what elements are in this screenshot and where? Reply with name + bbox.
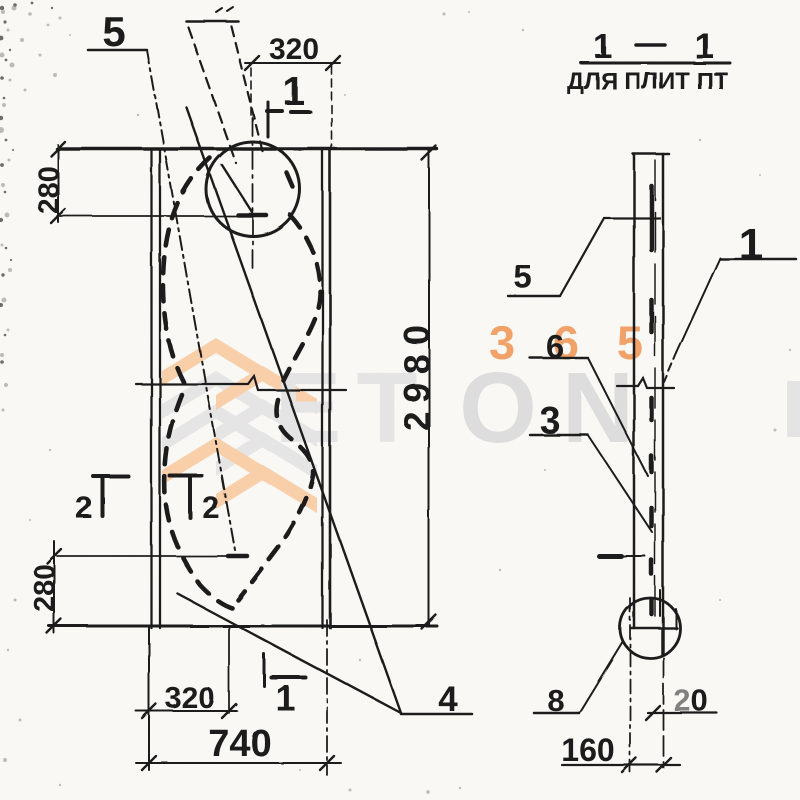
svg-text:1: 1 bbox=[594, 28, 613, 66]
svg-text:6: 6 bbox=[546, 328, 564, 365]
leader inside circle bbox=[222, 165, 252, 212]
top partial label line bbox=[186, 7, 238, 21]
front view left edge inner bbox=[159, 150, 161, 628]
svg-text:365: 365 bbox=[489, 316, 643, 369]
side top edge bbox=[633, 153, 669, 156]
side left edge bbox=[633, 154, 636, 628]
dimension 280 top bbox=[33, 142, 250, 223]
logo gray chevron row2 small bbox=[216, 399, 317, 447]
dimension 320 top bbox=[245, 33, 340, 149]
svg-text:1: 1 bbox=[739, 220, 763, 269]
svg-text:160: 160 bbox=[561, 732, 614, 768]
leader dashed short bbox=[231, 26, 263, 153]
label 4 bbox=[401, 680, 472, 719]
svg-text:1: 1 bbox=[275, 677, 295, 718]
logo orange chevron row4 small bbox=[216, 465, 317, 513]
section mark 1 top bbox=[267, 70, 310, 137]
logo orange chevron row4 big bbox=[162, 437, 270, 485]
front view left edge outer bbox=[150, 150, 152, 628]
front view right edge inner bbox=[321, 150, 323, 628]
label 1 right bbox=[664, 220, 796, 382]
label 6 bbox=[530, 328, 648, 476]
label 5 right bbox=[508, 218, 660, 296]
svg-text:E: E bbox=[275, 352, 342, 464]
left edge extension below bbox=[148, 626, 150, 770]
leader 5 dash-dot long bbox=[147, 50, 235, 550]
circle center tick bbox=[238, 213, 266, 218]
break line front view bbox=[136, 376, 346, 390]
side inner line bbox=[654, 160, 656, 616]
svg-text:280: 280 bbox=[33, 166, 65, 214]
leader 4 lower diagonal bbox=[178, 594, 401, 713]
svg-text:5: 5 bbox=[102, 8, 125, 55]
right extension bbox=[663, 658, 665, 768]
dimension 740 bbox=[136, 723, 341, 770]
logo orange chevron row1 small bbox=[216, 366, 317, 414]
inner 320 extension bbox=[228, 626, 230, 713]
scan speckles dark edge bbox=[0, 2, 53, 364]
bottom bracket bbox=[631, 590, 677, 655]
svg-text:280: 280 bbox=[29, 564, 61, 612]
dashed opening upper right arc bbox=[283, 173, 320, 380]
svg-text:2: 2 bbox=[75, 490, 92, 525]
svg-text:740: 740 bbox=[208, 723, 271, 765]
svg-text:320: 320 bbox=[269, 33, 319, 66]
front view right edge outer bbox=[329, 150, 332, 628]
svg-text:2: 2 bbox=[202, 490, 219, 525]
leader dashed to circle bbox=[188, 27, 236, 163]
TITLE 1-1 bbox=[567, 25, 730, 95]
svg-text:1: 1 bbox=[283, 70, 305, 114]
side right edge bbox=[662, 154, 665, 654]
dashed opening lower right arc bbox=[238, 400, 313, 600]
reinforcement dashes bbox=[649, 186, 654, 614]
break line side view bbox=[617, 378, 674, 388]
front view bottom edge bbox=[49, 625, 437, 628]
dimension 280 bottom bbox=[29, 541, 61, 633]
right edge dash-dot extension bbox=[326, 620, 328, 775]
watermark fragment right edge bbox=[787, 381, 800, 437]
dimension 160 bbox=[561, 732, 680, 772]
dimension 2980 bbox=[396, 146, 437, 629]
svg-text:5: 5 bbox=[514, 258, 532, 295]
logo gray chevron row3 small bbox=[216, 432, 317, 480]
logo orange chevron row1 big bbox=[162, 338, 270, 386]
centre line vertical bbox=[252, 118, 254, 272]
label 5 top left bbox=[88, 8, 147, 55]
label 8 bbox=[534, 641, 623, 718]
circle anchor top bbox=[206, 142, 300, 236]
leader 4 long diagonal bbox=[186, 107, 401, 713]
WATERMARK bbox=[162, 316, 800, 513]
svg-text:20: 20 bbox=[674, 683, 709, 718]
svg-text:320: 320 bbox=[165, 682, 215, 715]
logo gray chevron row2 big bbox=[162, 371, 270, 419]
centre dash-dot extension bbox=[629, 598, 631, 772]
section mark 1 bottom bbox=[264, 654, 305, 718]
mid tick side view bbox=[599, 554, 645, 559]
svg-text:1: 1 bbox=[694, 25, 714, 66]
anchor tick bottom bbox=[57, 554, 248, 559]
section marks 2-2 bbox=[75, 476, 219, 525]
dashed opening upper left arc bbox=[163, 158, 210, 383]
label 3 bbox=[530, 400, 652, 532]
svg-text:ДЛЯ ПЛИТ ПТ: ДЛЯ ПЛИТ ПТ bbox=[567, 68, 728, 95]
logo gray chevron row3 big bbox=[162, 404, 270, 452]
front view top edge bbox=[57, 147, 437, 150]
dashed opening lower left arc bbox=[165, 395, 232, 608]
dimension 320 bottom bbox=[136, 682, 237, 718]
dimension 20 bbox=[646, 683, 717, 720]
detail circle bbox=[620, 598, 680, 658]
